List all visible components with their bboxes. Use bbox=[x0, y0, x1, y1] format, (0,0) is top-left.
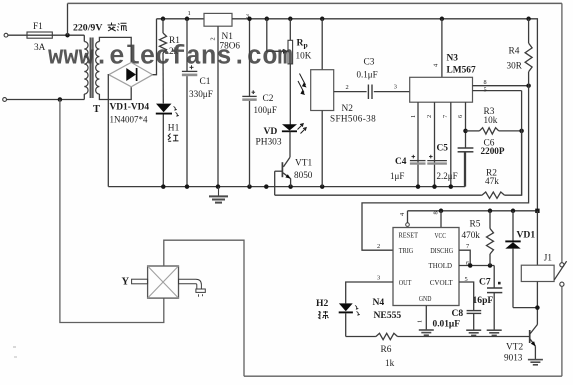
label C3 bbox=[364, 57, 375, 67]
ground (555 pin1) bbox=[419, 330, 434, 335]
wire: N2 Vcc from +6V rail bbox=[320, 17, 325, 70]
junction: Rp wiper tap on +6V rail bbox=[265, 17, 270, 22]
label VD value PH303 bbox=[256, 137, 282, 147]
label N3 bbox=[447, 53, 459, 63]
svg-text:0.1μF: 0.1μF bbox=[357, 70, 378, 80]
transformer T core bbox=[90, 38, 94, 99]
label H2 green bbox=[318, 311, 329, 319]
label H1 bbox=[168, 123, 180, 133]
pin label 1 (555 gnd, rotated) bbox=[417, 320, 424, 323]
junction: pin6/R3 node bbox=[463, 129, 468, 134]
pin label 6 (rotated) bbox=[457, 115, 464, 118]
svg-text:8: 8 bbox=[433, 211, 440, 214]
svg-text:R5: R5 bbox=[470, 219, 481, 229]
wire: LM567 pin1 to ground rail (C4 branch) bbox=[416, 102, 421, 189]
wire: neutral down-left loop to solenoid bbox=[60, 100, 164, 323]
ground (VT2 emitter) bbox=[528, 360, 543, 365]
wire: main ground rail bbox=[108, 152, 464, 187]
capacitor C8 bbox=[467, 311, 482, 330]
svg-text:RESET: RESET bbox=[399, 232, 419, 240]
555 internal pin names bbox=[399, 232, 454, 304]
junction: pin8/R4 node bbox=[526, 83, 531, 88]
svg-text:100μF: 100μF bbox=[254, 105, 277, 115]
terminal: AC live input bbox=[4, 33, 8, 37]
label C4 bbox=[395, 157, 407, 167]
wire: +6V rail from N1 output bbox=[232, 19, 537, 211]
svg-text:470k: 470k bbox=[462, 230, 481, 240]
solenoid valve Y box bbox=[148, 266, 179, 298]
wire: LM567 pin2 to ground rail (C5 branch) bbox=[432, 102, 437, 189]
svg-text:C4: C4 bbox=[395, 157, 407, 167]
svg-text:VD: VD bbox=[264, 126, 278, 137]
wire: 555 gnd pin 1 bbox=[425, 306, 427, 330]
resistor R1 bbox=[160, 19, 167, 104]
svg-text:8050: 8050 bbox=[294, 170, 313, 180]
label H1 red bbox=[168, 134, 179, 142]
junction: R3/pin5 corner bbox=[519, 129, 524, 134]
tone decoder N3 LM567 box bbox=[410, 77, 473, 102]
svg-text:6: 6 bbox=[457, 115, 464, 118]
label 7806 bbox=[220, 41, 241, 51]
wire: LM567 pin7 gnd to ground rail bbox=[449, 102, 454, 189]
junction: C1 on ground rail bbox=[185, 184, 190, 189]
label VT1 bbox=[295, 158, 312, 168]
svg-text:GND: GND bbox=[419, 295, 432, 303]
ground (C7) bbox=[487, 330, 502, 335]
wire: live terminal to fuse bbox=[8, 34, 27, 36]
label 1N4007*4 bbox=[110, 115, 148, 125]
label R4 value 30R bbox=[507, 60, 523, 70]
solenoid inlet pipe bbox=[132, 279, 148, 284]
svg-text:VD1-VD4: VD1-VD4 bbox=[110, 103, 150, 113]
label C6 bbox=[484, 139, 495, 149]
label R4 bbox=[509, 47, 520, 57]
svg-text:2: 2 bbox=[210, 37, 217, 40]
wire: LM567 pin6 branch with C6 bbox=[465, 102, 467, 186]
label C2 bbox=[263, 94, 274, 104]
wire: N2 gnd to ground rail bbox=[321, 111, 323, 187]
label R1 bbox=[169, 36, 180, 46]
paper speckles bbox=[13, 346, 17, 358]
svg-text:1k: 1k bbox=[385, 358, 395, 368]
wire: solenoid top to bottom rail loop bbox=[164, 240, 244, 376]
wire: 555 output to H2 bbox=[346, 282, 393, 303]
pin label 4 (555 reset, rotated) bbox=[399, 212, 406, 216]
label Rp bbox=[297, 38, 308, 50]
resistor R5 bbox=[487, 209, 494, 266]
junction: spare node on ground rail bbox=[264, 184, 269, 189]
label R6 bbox=[381, 345, 392, 355]
capacitor C1 bbox=[182, 19, 197, 187]
label C5 value 2.2uF bbox=[437, 171, 458, 181]
svg-text:R4: R4 bbox=[509, 47, 520, 57]
pin label 1 (rotated) bbox=[410, 115, 417, 118]
pin label 8 (555 Vcc, rotated) bbox=[433, 211, 440, 214]
resistor R6 bbox=[346, 333, 530, 339]
svg-text:VD1: VD1 bbox=[517, 229, 536, 240]
label C1 value 330uF bbox=[189, 89, 213, 99]
wire: bottom rail bbox=[244, 375, 562, 377]
transistor VT1 bbox=[275, 157, 291, 186]
junction: N1 gnd on ground rail bbox=[216, 184, 221, 189]
label VT2 bbox=[506, 342, 523, 352]
wire: +6V feed line above 555 bbox=[408, 210, 538, 212]
svg-text:2.2μF: 2.2μF bbox=[437, 171, 458, 181]
pin label 6 (555 thold) bbox=[466, 260, 469, 267]
label R3 value 10k bbox=[484, 115, 498, 125]
svg-text:H2: H2 bbox=[316, 298, 328, 309]
label R1 value 2k bbox=[169, 46, 179, 56]
pin label 2 (N1 gnd, rotated) bbox=[210, 37, 217, 40]
ground (C8) bbox=[466, 330, 481, 335]
svg-text:C1: C1 bbox=[200, 77, 211, 87]
junction: C1 tap bbox=[185, 17, 190, 22]
svg-text:1: 1 bbox=[410, 115, 417, 118]
label N2 value SFH506-38 bbox=[330, 114, 376, 124]
label Y bbox=[122, 277, 130, 288]
label N4 bbox=[373, 297, 385, 308]
timer N4 NE555 box bbox=[393, 228, 459, 306]
svg-text:10K: 10K bbox=[296, 50, 312, 60]
label F1 bbox=[33, 22, 43, 32]
pin label 5 bbox=[484, 86, 487, 93]
label N1 bbox=[222, 32, 234, 42]
wire: N1 ground pin down to ground rail bbox=[217, 26, 219, 186]
wire: Rp wiper arm bbox=[267, 19, 288, 54]
label VT1 value 8050 bbox=[294, 170, 313, 180]
svg-text:2: 2 bbox=[346, 84, 349, 91]
relay contact J1 bbox=[554, 261, 566, 286]
wire: 555 pin7 to thold node bbox=[459, 250, 470, 265]
junction: neutral / solenoid loop bbox=[58, 97, 63, 102]
watermark www.elecfans.com bbox=[48, 42, 293, 71]
pin label 7 (555 dischg) bbox=[466, 243, 470, 250]
pin label 2 (N2 out) bbox=[346, 84, 349, 91]
svg-text:www.elecfans.com: www.elecfans.com bbox=[48, 42, 293, 71]
label C1 bbox=[200, 77, 211, 87]
svg-text:C7: C7 bbox=[479, 277, 491, 288]
capacitor C5 bbox=[427, 155, 447, 165]
label Rp value 10K bbox=[296, 50, 312, 60]
svg-text:T: T bbox=[93, 104, 100, 115]
svg-text:R6: R6 bbox=[381, 345, 392, 355]
junction: VT1 emitter on ground rail bbox=[288, 184, 293, 189]
svg-text:C3: C3 bbox=[364, 57, 375, 67]
transformer T primary winding bbox=[84, 35, 88, 99]
junction: H1 on ground rail bbox=[161, 184, 166, 189]
wire: right AC rail down to relay contact bbox=[561, 3, 563, 262]
pin label 1 (N1 input) bbox=[188, 10, 191, 17]
IR receiver N2 box bbox=[311, 70, 334, 111]
svg-text:220/9V: 220/9V bbox=[73, 23, 102, 34]
svg-text:DISCHG: DISCHG bbox=[430, 247, 453, 255]
wire: LM567 pin8 output stub bbox=[473, 85, 529, 87]
label C4 value 1uF bbox=[390, 171, 404, 181]
svg-text:p: p bbox=[304, 41, 308, 50]
svg-text:THOLD: THOLD bbox=[429, 262, 453, 270]
label C7 value 16pF bbox=[473, 295, 494, 306]
svg-text:N4: N4 bbox=[373, 297, 385, 308]
pin label 8 bbox=[484, 79, 487, 86]
svg-text:3: 3 bbox=[394, 84, 397, 91]
resistor R2 bbox=[482, 131, 522, 199]
svg-text:N3: N3 bbox=[447, 53, 459, 63]
wire: VT1 base down to R2 line bbox=[274, 171, 276, 195]
pin label 3 (N1 output) bbox=[246, 13, 250, 20]
resistor R4 bbox=[525, 17, 532, 86]
svg-text:LM567: LM567 bbox=[447, 66, 476, 76]
label N2 bbox=[342, 104, 354, 114]
capacitor C7 bbox=[487, 266, 502, 331]
svg-text:9013: 9013 bbox=[504, 353, 523, 363]
label R2 value 47k bbox=[485, 176, 499, 186]
svg-text:PH303: PH303 bbox=[256, 137, 282, 147]
svg-text:3: 3 bbox=[377, 275, 380, 282]
wire: secondary top lead to bridge bbox=[99, 37, 131, 62]
potentiometer Rp bbox=[288, 19, 293, 125]
pin label 3 (555 out) bbox=[377, 275, 380, 282]
svg-text:3A: 3A bbox=[34, 43, 46, 53]
svg-text:VT1: VT1 bbox=[295, 158, 312, 168]
label R3 bbox=[484, 107, 495, 117]
pin label 2 (555 trig) bbox=[377, 243, 380, 250]
capacitor C4 bbox=[410, 155, 426, 165]
label J1 bbox=[544, 253, 553, 263]
svg-text:CVOLT: CVOLT bbox=[430, 279, 454, 287]
wire: top AC rail bbox=[68, 2, 562, 4]
svg-text:SFH506-38: SFH506-38 bbox=[330, 114, 376, 124]
faucet spout bbox=[179, 279, 206, 297]
junction: C2 on ground rail bbox=[247, 184, 252, 189]
label LM567 bbox=[447, 66, 476, 76]
LED H2 bbox=[339, 303, 360, 336]
transistor VT2 bbox=[530, 308, 538, 360]
label R5 bbox=[470, 219, 481, 229]
svg-text:16pF: 16pF bbox=[473, 295, 494, 306]
wire: neutral terminal to transformer bbox=[7, 99, 85, 101]
label T bbox=[93, 104, 100, 115]
junction: C2 on +6V rail bbox=[247, 17, 252, 22]
ground symbol (main) bbox=[209, 187, 228, 203]
terminal: AC neutral input bbox=[3, 98, 7, 102]
wire: bridge DC- down to ground rail bbox=[107, 75, 110, 187]
label C5 bbox=[437, 144, 449, 154]
pin label 4 (LM567 Vcc, rotated) bbox=[433, 63, 440, 67]
regulator N1 box bbox=[204, 13, 232, 26]
wire: LM567 output down and across to 555 trigger bbox=[362, 86, 529, 251]
wire: fuse to transformer primary bbox=[52, 34, 84, 36]
label C2 value 100uF bbox=[254, 105, 277, 115]
svg-text:1N4007*4: 1N4007*4 bbox=[110, 115, 148, 125]
svg-text:5: 5 bbox=[484, 86, 487, 93]
capacitor C6 bbox=[458, 148, 474, 152]
pin label 2 (rotated) bbox=[426, 115, 433, 118]
label VD1-VD4 bbox=[110, 103, 150, 113]
svg-text:1: 1 bbox=[188, 10, 191, 17]
svg-text:J1: J1 bbox=[544, 253, 553, 263]
junction: +6V/coil node bbox=[535, 209, 539, 213]
svg-text:H1: H1 bbox=[168, 123, 180, 133]
svg-text:OUT: OUT bbox=[399, 279, 412, 287]
label H2 bbox=[316, 298, 328, 309]
label VT2 value 9013 bbox=[504, 353, 523, 363]
svg-text:C8: C8 bbox=[452, 308, 464, 319]
label C7 bbox=[479, 277, 491, 288]
svg-text:8: 8 bbox=[484, 79, 487, 86]
svg-text:30R: 30R bbox=[507, 60, 523, 70]
junction: N2 gnd on ground rail bbox=[320, 184, 325, 189]
wire: 555 Vcc pin 8 bbox=[439, 209, 444, 228]
svg-text:2200P: 2200P bbox=[481, 146, 505, 156]
wire: LM567 Vcc from +6V rail bbox=[440, 17, 445, 78]
wire: riser to top AC rail bbox=[67, 3, 69, 35]
svg-text:TRIG: TRIG bbox=[399, 247, 414, 255]
wire: N2 output to C3 bbox=[334, 91, 367, 93]
LED H1 bbox=[156, 104, 179, 187]
IR LED VD bbox=[282, 124, 306, 158]
svg-text:NE555: NE555 bbox=[374, 310, 402, 321]
label R5 value 470k bbox=[462, 230, 481, 240]
label C8 value 0.01uF bbox=[433, 319, 461, 329]
svg-text:330μF: 330μF bbox=[189, 89, 213, 99]
label 220/9V AC bbox=[73, 23, 127, 34]
label C6 value 2200P bbox=[481, 146, 505, 156]
junction: Rp top on +6V rail bbox=[288, 17, 293, 22]
bridge rectifier internal diode bbox=[126, 68, 136, 81]
capacitor C3 bbox=[368, 85, 409, 100]
svg-text:2: 2 bbox=[426, 115, 433, 118]
wire: 555 pin5 to C8 bbox=[459, 282, 474, 310]
IR input arrows into N2 bbox=[298, 74, 307, 96]
wire: contact bottom to bottom rail bbox=[561, 286, 563, 376]
capacitor C2 bbox=[242, 19, 256, 187]
wire: thold line pin6 bbox=[459, 263, 494, 268]
svg-text:F1: F1 bbox=[33, 22, 43, 32]
transformer T secondary winding bbox=[96, 42, 100, 95]
svg-text:0.01μF: 0.01μF bbox=[433, 319, 461, 329]
svg-text:VCC: VCC bbox=[435, 232, 447, 240]
label C3 value 0.1uF bbox=[357, 70, 378, 80]
label NE555 bbox=[374, 310, 402, 321]
wire: VT1 base / R2 line bbox=[275, 194, 482, 196]
wire: LM567 pin5 stub bbox=[473, 91, 522, 196]
svg-text:1: 1 bbox=[417, 320, 424, 323]
svg-text:1μF: 1μF bbox=[390, 171, 404, 181]
svg-text:C5: C5 bbox=[437, 144, 449, 154]
svg-text:C2: C2 bbox=[263, 94, 274, 104]
wire: 555 reset pin 4 bbox=[406, 211, 410, 227]
label VD1 bbox=[517, 229, 536, 240]
diode VD1 (flyback) bbox=[505, 209, 537, 308]
label R6 value 1k bbox=[385, 358, 395, 368]
label 3A bbox=[34, 43, 46, 53]
label C8 bbox=[452, 308, 464, 319]
pin label 7 (rotated) bbox=[442, 114, 449, 118]
label VD bbox=[264, 126, 278, 137]
wire: +9V rail into N1 bbox=[157, 18, 205, 20]
label R2 bbox=[486, 169, 497, 179]
junction: R1 tap bbox=[161, 17, 166, 22]
wire: bridge DC+ to +9V rail bbox=[153, 19, 157, 75]
bridge rectifier VD1-VD4 body bbox=[109, 62, 153, 86]
fuse F1 bbox=[27, 32, 52, 38]
relay coil J1 bbox=[521, 211, 554, 310]
svg-text:10k: 10k bbox=[484, 115, 498, 125]
svg-text:2: 2 bbox=[377, 243, 380, 250]
svg-text:VT2: VT2 bbox=[506, 342, 523, 352]
resistor R3 bbox=[466, 128, 522, 134]
wire: secondary bottom lead to bridge bbox=[99, 87, 131, 100]
svg-text:Y: Y bbox=[122, 277, 130, 288]
pin label 3 (LM567 input) bbox=[394, 84, 397, 91]
junction: fuse/top-rail node bbox=[65, 33, 70, 38]
pin label 5 (555 cvolt) bbox=[465, 276, 468, 283]
svg-text:47k: 47k bbox=[485, 176, 499, 186]
